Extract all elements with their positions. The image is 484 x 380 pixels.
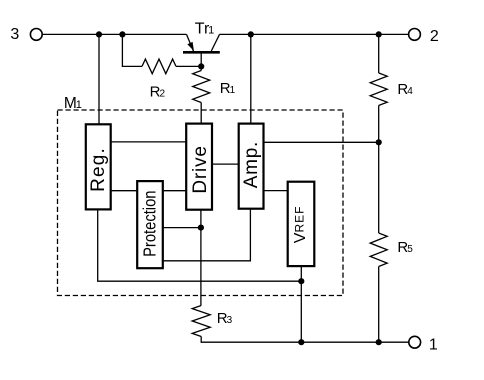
junction on top wire above R4 [376, 31, 382, 37]
module M1 boundary (dashed) [58, 110, 344, 296]
wire R2 to base node [176, 65, 201, 67]
terminal 1 [409, 336, 421, 348]
block Vref [288, 182, 315, 266]
block Amp [239, 124, 264, 209]
resistor R5 [370, 233, 387, 267]
wire top-right (Tr1 collector to terminal 2) [220, 33, 409, 35]
wire R1 to Drive top [200, 103, 202, 125]
block Drive [186, 124, 212, 210]
svg-text:3: 3 [10, 26, 19, 43]
node base junction (R1/R2/base) [198, 63, 204, 69]
resistor R3 [192, 306, 210, 337]
wire top junction to Reg top [98, 34, 100, 124]
junction bottom rail / R5 [376, 339, 382, 345]
junction on top wire at R2 branch [119, 31, 125, 37]
junction Drive bottom / Protection [198, 225, 204, 231]
svg-text:VREF: VREF [292, 206, 309, 244]
wire R4 top lead [378, 34, 380, 73]
wire Drive right to Amp left [212, 163, 239, 165]
terminal 3 [30, 29, 42, 41]
junction R4/R5 with Amp line [376, 139, 382, 145]
svg-text:1: 1 [429, 337, 438, 354]
wire R5 bottom lead [378, 267, 380, 343]
wire Amp bottom to Protection right [163, 209, 251, 261]
junction Vref bottom / Reg line [298, 278, 304, 284]
junction on top wire above Amp [248, 31, 254, 37]
wire Amp right to R4/R5 node [264, 141, 379, 143]
junction bottom rail / Vref line [298, 339, 304, 345]
wire R2 branch down from top wire [122, 34, 142, 66]
terminal 2 [409, 29, 421, 41]
block Reg [86, 124, 111, 209]
resistor R4 [370, 73, 387, 106]
resistor R2 [142, 59, 176, 74]
wire top-left (terminal 3 to Tr1 emitter) [42, 33, 186, 35]
svg-text:Protection: Protection [140, 191, 160, 257]
resistor R1 [193, 71, 210, 103]
wire Drive bottom to R3 [200, 210, 202, 306]
wire R4 to R5 [378, 106, 380, 234]
junction on top wire above Reg [96, 31, 102, 37]
wire R3 bottom corner to bottom rail [201, 337, 408, 343]
svg-text:2: 2 [430, 28, 439, 45]
wire Reg bottom to Vref bottom node [98, 209, 302, 281]
transistor Tr1 [183, 34, 220, 66]
wire Reg right to Protection left [111, 190, 138, 192]
wire Protection right to Drive left [163, 190, 186, 192]
svg-text:Drive: Drive [190, 145, 211, 193]
wire base node to R1 [200, 66, 202, 70]
wire Protection right to Drive-bottom node [163, 227, 201, 229]
wire top junction to Amp top [250, 34, 252, 123]
block Protection [137, 181, 163, 268]
wire Amp right to Vref left [264, 190, 288, 192]
wire Reg right to Drive left [111, 141, 187, 143]
svg-text:Amp.: Amp. [241, 141, 262, 188]
svg-text:Reg.: Reg. [88, 147, 109, 192]
wire Vref bottom down to bottom line [300, 266, 302, 342]
